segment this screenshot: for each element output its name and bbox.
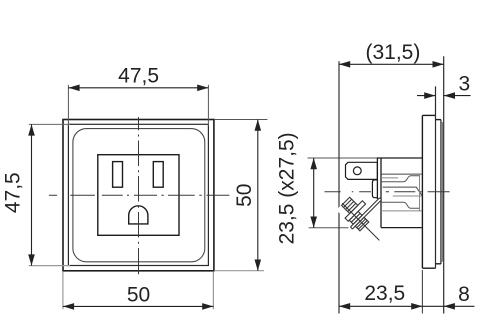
svg-text:23,5 (x27,5): 23,5 (x27,5) (276, 132, 299, 244)
dimension 23,5 bottom (339, 270, 475, 314)
svg-text:50: 50 (233, 184, 256, 207)
front view: ground pin hole (129, 206, 148, 224)
dimension 8 (444, 283, 470, 310)
svg-text:3: 3 (458, 73, 470, 96)
front view: face plate square (68, 124, 208, 265)
dimension 3 (417, 73, 471, 99)
front view: neutral slot (113, 162, 123, 188)
side view: quick-connect terminal lug (346, 162, 378, 179)
side view: flange plate (436, 120, 443, 264)
svg-text:23,5: 23,5 (364, 282, 405, 305)
side view: flange rear edge (435, 86, 437, 268)
dimension 50 bottom (63, 272, 214, 310)
svg-text:8: 8 (458, 283, 470, 306)
side view: earthing screw assembly (334, 182, 401, 249)
dimension 47,5 top (68, 64, 208, 126)
dimension 47,5 left (2, 124, 71, 265)
svg-text:47,5: 47,5 (2, 172, 25, 213)
side view: body block (308, 158, 423, 228)
side view: mounting bracket (422, 115, 435, 268)
front view: vertical centerline (138, 117, 140, 274)
dimension 23,5 (x27,5) (276, 132, 318, 244)
front view: flange outer square (63, 120, 214, 271)
front view: recess rectangle (98, 155, 179, 236)
side view: blade terminal tab (372, 180, 377, 198)
side view: centerline (325, 191, 450, 193)
front view: line slot (153, 162, 163, 188)
svg-text:(31,5): (31,5) (365, 41, 420, 64)
dimension 50 right (214, 120, 267, 271)
svg-text:50: 50 (127, 283, 150, 306)
front view: horizontal centerline (49, 194, 230, 196)
side view: contact cavity details (381, 174, 422, 211)
svg-text:47,5: 47,5 (118, 64, 159, 87)
side view: face front edge (443, 56, 445, 313)
dimension (31,5) (339, 41, 444, 314)
front view: rounded face (73, 129, 205, 262)
